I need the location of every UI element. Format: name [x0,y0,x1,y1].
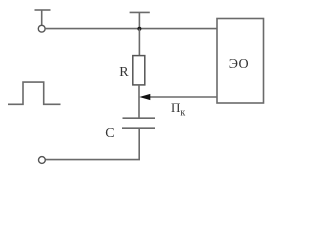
svg-text:C: C [105,126,114,141]
wire: top horizontal from terminal to box [45,28,217,30]
bar above resistor [130,12,150,28]
pulse waveform symbol [8,82,61,104]
input terminal top bar [35,10,51,25]
wire: arrow feedback line from box [149,96,217,98]
wire: vertical into resistor [138,29,140,56]
capacitor C bottom plate [122,127,155,129]
svg-text:R: R [119,65,129,80]
oscilloscope box U1 [217,19,264,104]
resistor R [133,56,145,85]
arrowhead [139,94,150,100]
capacitor C top plate [123,117,156,119]
svg-text:Пк: Пк [171,100,185,119]
wire: capacitor down [138,128,140,159]
svg-text:ЭО: ЭО [229,57,249,72]
input terminal circle (top) [38,25,45,32]
output terminal circle (bottom) [39,157,46,164]
wire: bottom horizontal to terminal [46,159,141,161]
wire: resistor bottom to capacitor [138,85,140,118]
node junction dot [137,27,141,31]
